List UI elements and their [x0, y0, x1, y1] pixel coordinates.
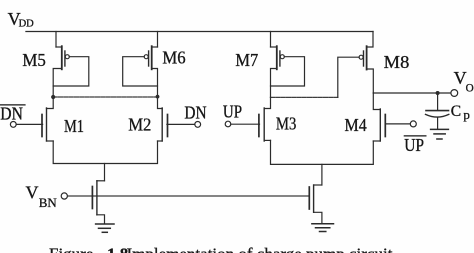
node A (left mirror node) wire: [53, 96, 157, 98]
svg-text:M1: M1: [64, 116, 84, 136]
svg-text:1.8: 1.8: [107, 244, 128, 253]
wire left tail rail: [53, 141, 157, 164]
label Cp: [451, 103, 470, 122]
capacitor Cp: [426, 93, 449, 129]
ground (right tail): [312, 224, 334, 232]
terminal VBN: [61, 193, 67, 199]
svg-text:M6: M6: [162, 48, 185, 68]
junction node Cp tap: [436, 91, 440, 95]
svg-text:DD: DD: [19, 19, 35, 30]
wire VDD rail: [26, 31, 373, 33]
junction node M6/M2 drain: [156, 95, 160, 99]
svg-text:p: p: [463, 107, 470, 122]
svg-text:M7: M7: [235, 50, 258, 70]
label DNbar with overline: [0, 104, 26, 124]
transistor M4 (NMOS, gate UPbar): [373, 93, 410, 141]
terminal UP: [225, 121, 231, 127]
svg-text:DN: DN: [0, 104, 23, 124]
svg-text:O: O: [466, 82, 474, 94]
svg-text:M8: M8: [384, 52, 410, 72]
wire right tail rail: [271, 140, 374, 164]
svg-text:UP: UP: [404, 135, 424, 155]
svg-text:M3: M3: [276, 114, 297, 134]
label VBN: [26, 182, 58, 210]
svg-text:BN: BN: [39, 195, 58, 210]
wire output line to Vo: [373, 92, 451, 94]
transistor M3 (NMOS, gate UP): [231, 97, 271, 141]
wire right tail stub: [321, 164, 323, 185]
node B (right mirror node) wire: [271, 96, 338, 98]
svg-text:DN: DN: [184, 102, 206, 122]
transistor tail NMOS right (bias): [309, 185, 322, 223]
svg-text:M4: M4: [345, 115, 367, 135]
transistor M2 (NMOS, gate DN): [158, 97, 195, 141]
ground (left tail): [96, 224, 114, 232]
label Vo: [454, 68, 474, 94]
svg-text:C: C: [451, 103, 461, 120]
wire VBN bias line: [68, 195, 310, 197]
svg-text:Implementation of charge pump: Implementation of charge pump circuit: [127, 244, 393, 253]
transistor M1 (NMOS, gate DNbar): [16, 97, 53, 141]
transistor M8 (PMOS mirror output): [338, 32, 374, 98]
junction node M5/M1 drain: [51, 95, 55, 99]
transistor tail NMOS left (bias): [92, 181, 104, 224]
transistor M7 (diode-connected PMOS): [271, 32, 305, 98]
transistor M6 (diode-connected PMOS): [123, 32, 158, 97]
label UPbar with overline: [404, 135, 427, 155]
terminal Vo: [451, 90, 458, 97]
terminal DN: [195, 122, 201, 128]
wire left tail stub: [104, 164, 106, 181]
svg-text:Figure: Figure: [49, 244, 93, 253]
terminal DNbar: [10, 122, 16, 128]
ground (capacitor): [431, 129, 449, 139]
svg-text:V: V: [26, 182, 39, 202]
transistor M5 (diode-connected PMOS): [53, 32, 89, 98]
svg-text:M2: M2: [128, 115, 151, 135]
terminal UPbar: [410, 121, 416, 127]
svg-text:UP: UP: [223, 102, 242, 122]
svg-text:M5: M5: [22, 50, 46, 70]
label VDD: [8, 9, 35, 30]
caption Figure 1.8: [49, 244, 393, 253]
